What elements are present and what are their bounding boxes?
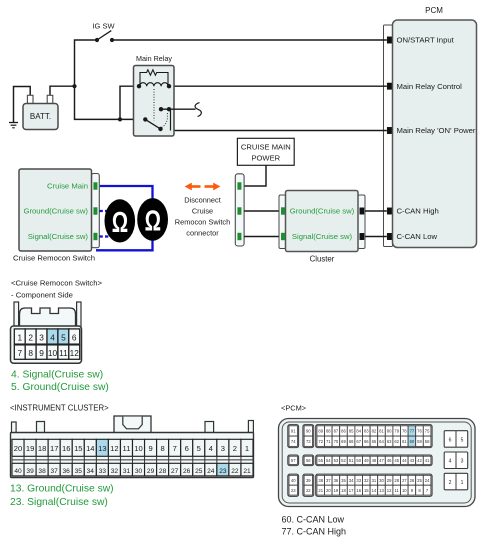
svg-text:Cruise Remocon Switch: Cruise Remocon Switch [13,254,95,263]
svg-text:17: 17 [349,488,354,493]
svg-text:8: 8 [28,348,33,358]
svg-text:PCM: PCM [425,6,443,15]
svg-text:ON/START Input: ON/START Input [397,36,455,45]
svg-text:Cruise: Cruise [192,206,213,215]
svg-text:10: 10 [134,444,142,453]
svg-text:78: 78 [402,429,407,434]
svg-text:12: 12 [70,348,80,358]
svg-text:37: 37 [326,478,331,483]
svg-text:Main Relay Control: Main Relay Control [397,82,463,91]
svg-text:5. Ground(Cruise sw): 5. Ground(Cruise sw) [11,382,109,393]
svg-text:17: 17 [50,444,58,453]
svg-text:6: 6 [72,332,77,342]
svg-text:14: 14 [86,444,94,453]
svg-text:39: 39 [26,468,34,475]
svg-text:35: 35 [75,468,83,475]
svg-text:Ground(Cruise sw): Ground(Cruise sw) [290,207,355,216]
svg-text:3: 3 [461,459,464,465]
svg-text:66: 66 [364,439,369,444]
svg-text:31: 31 [123,468,131,475]
svg-text:62: 62 [394,439,399,444]
svg-text:C-CAN Low: C-CAN Low [397,232,438,241]
svg-text:34: 34 [87,468,95,475]
svg-text:42: 42 [417,458,422,463]
svg-text:23: 23 [291,488,296,493]
svg-text:Cluster: Cluster [310,255,335,264]
svg-text:30: 30 [379,478,384,483]
svg-text:45: 45 [394,458,399,463]
svg-text:48: 48 [372,458,377,463]
svg-text:87: 87 [334,429,339,434]
svg-text:32: 32 [111,468,119,475]
svg-text:53: 53 [334,458,339,463]
svg-text:21: 21 [318,488,323,493]
svg-text:11: 11 [395,488,400,493]
svg-text:IG SW: IG SW [92,22,115,31]
svg-text:25: 25 [417,478,422,483]
svg-text:64: 64 [379,439,384,444]
svg-text:82: 82 [372,429,377,434]
svg-text:3: 3 [39,332,44,342]
svg-text:Ground(Cruise sw): Ground(Cruise sw) [23,207,88,216]
svg-text:36: 36 [63,468,71,475]
svg-text:5: 5 [197,444,201,453]
svg-text:15: 15 [74,444,82,453]
svg-text:81: 81 [379,429,384,434]
svg-text:84: 84 [356,429,361,434]
svg-text:39: 39 [306,478,311,483]
svg-text:79: 79 [394,429,399,434]
svg-text:85: 85 [349,429,354,434]
svg-text:3: 3 [221,444,225,453]
svg-text:2: 2 [28,332,33,342]
svg-text:1: 1 [245,444,249,453]
svg-text:4: 4 [449,459,452,465]
svg-text:61: 61 [402,439,407,444]
svg-text:10: 10 [402,488,407,493]
svg-text:- Component Side: - Component Side [11,291,73,300]
svg-text:12: 12 [387,488,392,493]
svg-text:88: 88 [326,429,331,434]
svg-text:13. Ground(Cruise sw): 13. Ground(Cruise sw) [10,484,114,495]
svg-text:68: 68 [349,439,354,444]
svg-text:37: 37 [51,468,59,475]
svg-text:58: 58 [425,439,430,444]
svg-text:35: 35 [341,478,346,483]
svg-text:14: 14 [372,488,377,493]
svg-text:13: 13 [98,444,106,453]
svg-text:Disconnect: Disconnect [184,195,221,204]
svg-text:34: 34 [349,478,354,483]
svg-text:16: 16 [356,488,361,493]
svg-text:8: 8 [160,444,164,453]
svg-text:72: 72 [318,439,323,444]
svg-text:9: 9 [39,348,44,358]
svg-text:50: 50 [356,458,361,463]
svg-text:33: 33 [99,468,107,475]
svg-text:65: 65 [372,439,377,444]
svg-text:38: 38 [318,478,323,483]
svg-text:connector: connector [186,228,219,237]
svg-text:24: 24 [207,468,215,475]
svg-text:22: 22 [306,488,311,493]
svg-text:Ω: Ω [112,207,128,239]
svg-text:80: 80 [387,429,392,434]
svg-text:11: 11 [123,444,131,453]
svg-text:24: 24 [425,478,430,483]
svg-text:71: 71 [326,439,331,444]
svg-text:18: 18 [341,488,346,493]
svg-text:4: 4 [50,332,55,342]
svg-text:20: 20 [326,488,331,493]
svg-text:6: 6 [449,437,452,443]
svg-text:11: 11 [59,348,68,358]
svg-text:76: 76 [417,429,422,434]
svg-text:2: 2 [449,480,452,486]
svg-text:12: 12 [110,444,118,453]
svg-text:15: 15 [364,488,369,493]
svg-text:<PCM>: <PCM> [281,404,306,413]
svg-text:63: 63 [387,439,392,444]
svg-text:Main Relay: Main Relay [136,54,172,63]
svg-text:67: 67 [356,439,361,444]
svg-text:91: 91 [291,429,296,434]
svg-text:55: 55 [318,458,323,463]
svg-text:44: 44 [402,458,407,463]
svg-text:4: 4 [209,444,213,453]
svg-text:41: 41 [425,458,430,463]
svg-text:25: 25 [195,468,203,475]
svg-text:70: 70 [334,439,339,444]
svg-text:86: 86 [341,429,346,434]
svg-text:69: 69 [341,439,346,444]
svg-text:5: 5 [461,437,464,443]
svg-text:Cruise Main: Cruise Main [47,182,88,191]
svg-text:27: 27 [402,478,407,483]
svg-text:75: 75 [425,429,430,434]
svg-text:13: 13 [379,488,384,493]
svg-text:1: 1 [17,332,22,342]
svg-text:38: 38 [38,468,46,475]
svg-text:7: 7 [17,348,22,358]
svg-text:Main Relay 'ON' Power: Main Relay 'ON' Power [397,126,476,135]
svg-text:77: 77 [410,429,415,434]
svg-text:19: 19 [334,488,339,493]
svg-text:2: 2 [233,444,237,453]
svg-text:Remocon Switch: Remocon Switch [175,217,230,226]
svg-text:54: 54 [326,458,331,463]
svg-text:59: 59 [417,439,422,444]
svg-text:19: 19 [26,444,34,453]
svg-text:5: 5 [61,332,66,342]
svg-text:28: 28 [159,468,167,475]
svg-text:74: 74 [291,439,296,444]
svg-text:Signal(Cruise sw): Signal(Cruise sw) [28,232,89,241]
svg-text:21: 21 [243,468,251,475]
svg-text:18: 18 [38,444,46,453]
svg-text:6: 6 [185,444,189,453]
svg-text:52: 52 [341,458,346,463]
svg-text:89: 89 [318,429,323,434]
svg-text:46: 46 [387,458,392,463]
svg-text:POWER: POWER [251,153,280,162]
svg-text:Signal(Cruise sw): Signal(Cruise sw) [292,232,353,241]
svg-text:<Cruise Remocon Switch>: <Cruise Remocon Switch> [11,279,103,288]
svg-text:32: 32 [364,478,369,483]
svg-text:7: 7 [173,444,177,453]
svg-text:23: 23 [219,468,227,475]
svg-text:31: 31 [372,478,377,483]
svg-text:29: 29 [147,468,155,475]
svg-text:28: 28 [394,478,399,483]
svg-text:30: 30 [135,468,143,475]
svg-text:36: 36 [334,478,339,483]
svg-text:26: 26 [183,468,191,475]
svg-text:16: 16 [62,444,70,453]
svg-text:60: 60 [410,439,415,444]
svg-text:9: 9 [148,444,152,453]
svg-text:51: 51 [349,458,354,463]
svg-text:29: 29 [387,478,392,483]
svg-text:23. Signal(Cruise sw): 23. Signal(Cruise sw) [10,497,108,508]
svg-text:BATT.: BATT. [30,112,51,121]
svg-text:26: 26 [410,478,415,483]
svg-text:Ω: Ω [145,205,161,237]
svg-text:60. C-CAN Low: 60. C-CAN Low [282,515,345,525]
svg-text:10: 10 [48,348,58,358]
svg-text:77. C-CAN High: 77. C-CAN High [282,527,347,537]
svg-text:4. Signal(Cruise sw): 4. Signal(Cruise sw) [11,370,103,381]
svg-text:90: 90 [306,429,311,434]
svg-text:40: 40 [291,478,296,483]
svg-text:27: 27 [171,468,179,475]
svg-text:56: 56 [306,458,311,463]
svg-text:83: 83 [364,429,369,434]
svg-text:33: 33 [356,478,361,483]
svg-text:CRUISE MAIN: CRUISE MAIN [241,142,291,151]
svg-text:40: 40 [14,468,22,475]
svg-text:57: 57 [291,458,296,463]
svg-text:22: 22 [231,468,239,475]
svg-text:1: 1 [461,480,464,486]
svg-text:20: 20 [14,444,22,453]
svg-text:49: 49 [364,458,369,463]
svg-text:43: 43 [410,458,415,463]
svg-text:73: 73 [306,439,311,444]
svg-text:C-CAN High: C-CAN High [397,207,439,216]
svg-text:<INSTRUMENT CLUSTER>: <INSTRUMENT CLUSTER> [10,404,109,413]
svg-text:47: 47 [379,458,384,463]
